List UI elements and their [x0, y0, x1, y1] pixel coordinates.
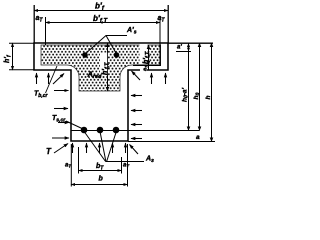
bottom rebar line — [71, 130, 200, 132]
flow arrows under right overhang — [132, 71, 166, 84]
bottom rebar dot 1 — [81, 127, 88, 134]
flow arrows under web bottom — [73, 143, 126, 153]
svg-text:a: a — [196, 134, 200, 141]
top rebar A's dot right — [114, 52, 120, 58]
dimension h'_f (left) — [9, 43, 34, 70]
svg-text:h: h — [205, 96, 212, 100]
arrow from T to corner — [54, 144, 68, 154]
top rebar A's dot left — [82, 52, 88, 58]
T-beam outline — [34, 43, 168, 141]
leader T_s,cr — [66, 121, 82, 129]
a' dimension arrowheads — [187, 43, 190, 47]
dimension b — [71, 144, 128, 187]
bottom rebar dot 2 — [97, 127, 104, 134]
dimension h — [211, 43, 213, 142]
flow arrows under left overhang — [37, 73, 65, 84]
hatched reduced area A_red — [41, 45, 160, 91]
thick hatch boundary right — [133, 45, 160, 66]
arrow T_b,cr — [54, 90, 69, 92]
svg-text:a′: a′ — [177, 45, 182, 51]
dimension line b'_f — [34, 5, 168, 43]
leader A's — [85, 36, 127, 55]
leader T_b,cr to flange — [46, 66, 58, 93]
svg-text:b: b — [99, 176, 104, 183]
flow arrows right of web — [131, 96, 142, 139]
extension a' level — [176, 51, 191, 53]
label a_T right small rotated — [140, 65, 147, 72]
dimension b_T — [79, 147, 122, 174]
dimension h_0-a' — [188, 43, 190, 131]
flow arrows left of web — [52, 109, 69, 139]
label h'_f,T center rotated — [100, 53, 107, 76]
dimension h'_f,T center — [107, 43, 109, 91]
dimension a_T right small — [148, 65, 150, 70]
dimension h_0 — [199, 43, 201, 131]
extension bottom edge to h — [128, 141, 215, 143]
dimension h'_f,T right — [140, 45, 148, 65]
leaders from bottom rebar to b_T apex — [85, 132, 117, 161]
leader line to A_s — [105, 161, 144, 163]
bottom rebar dot 3 — [113, 127, 120, 134]
right side extension top edge — [168, 42, 213, 44]
leader A_s arrow — [130, 145, 139, 155]
dimension line b'_f,T — [46, 17, 161, 45]
